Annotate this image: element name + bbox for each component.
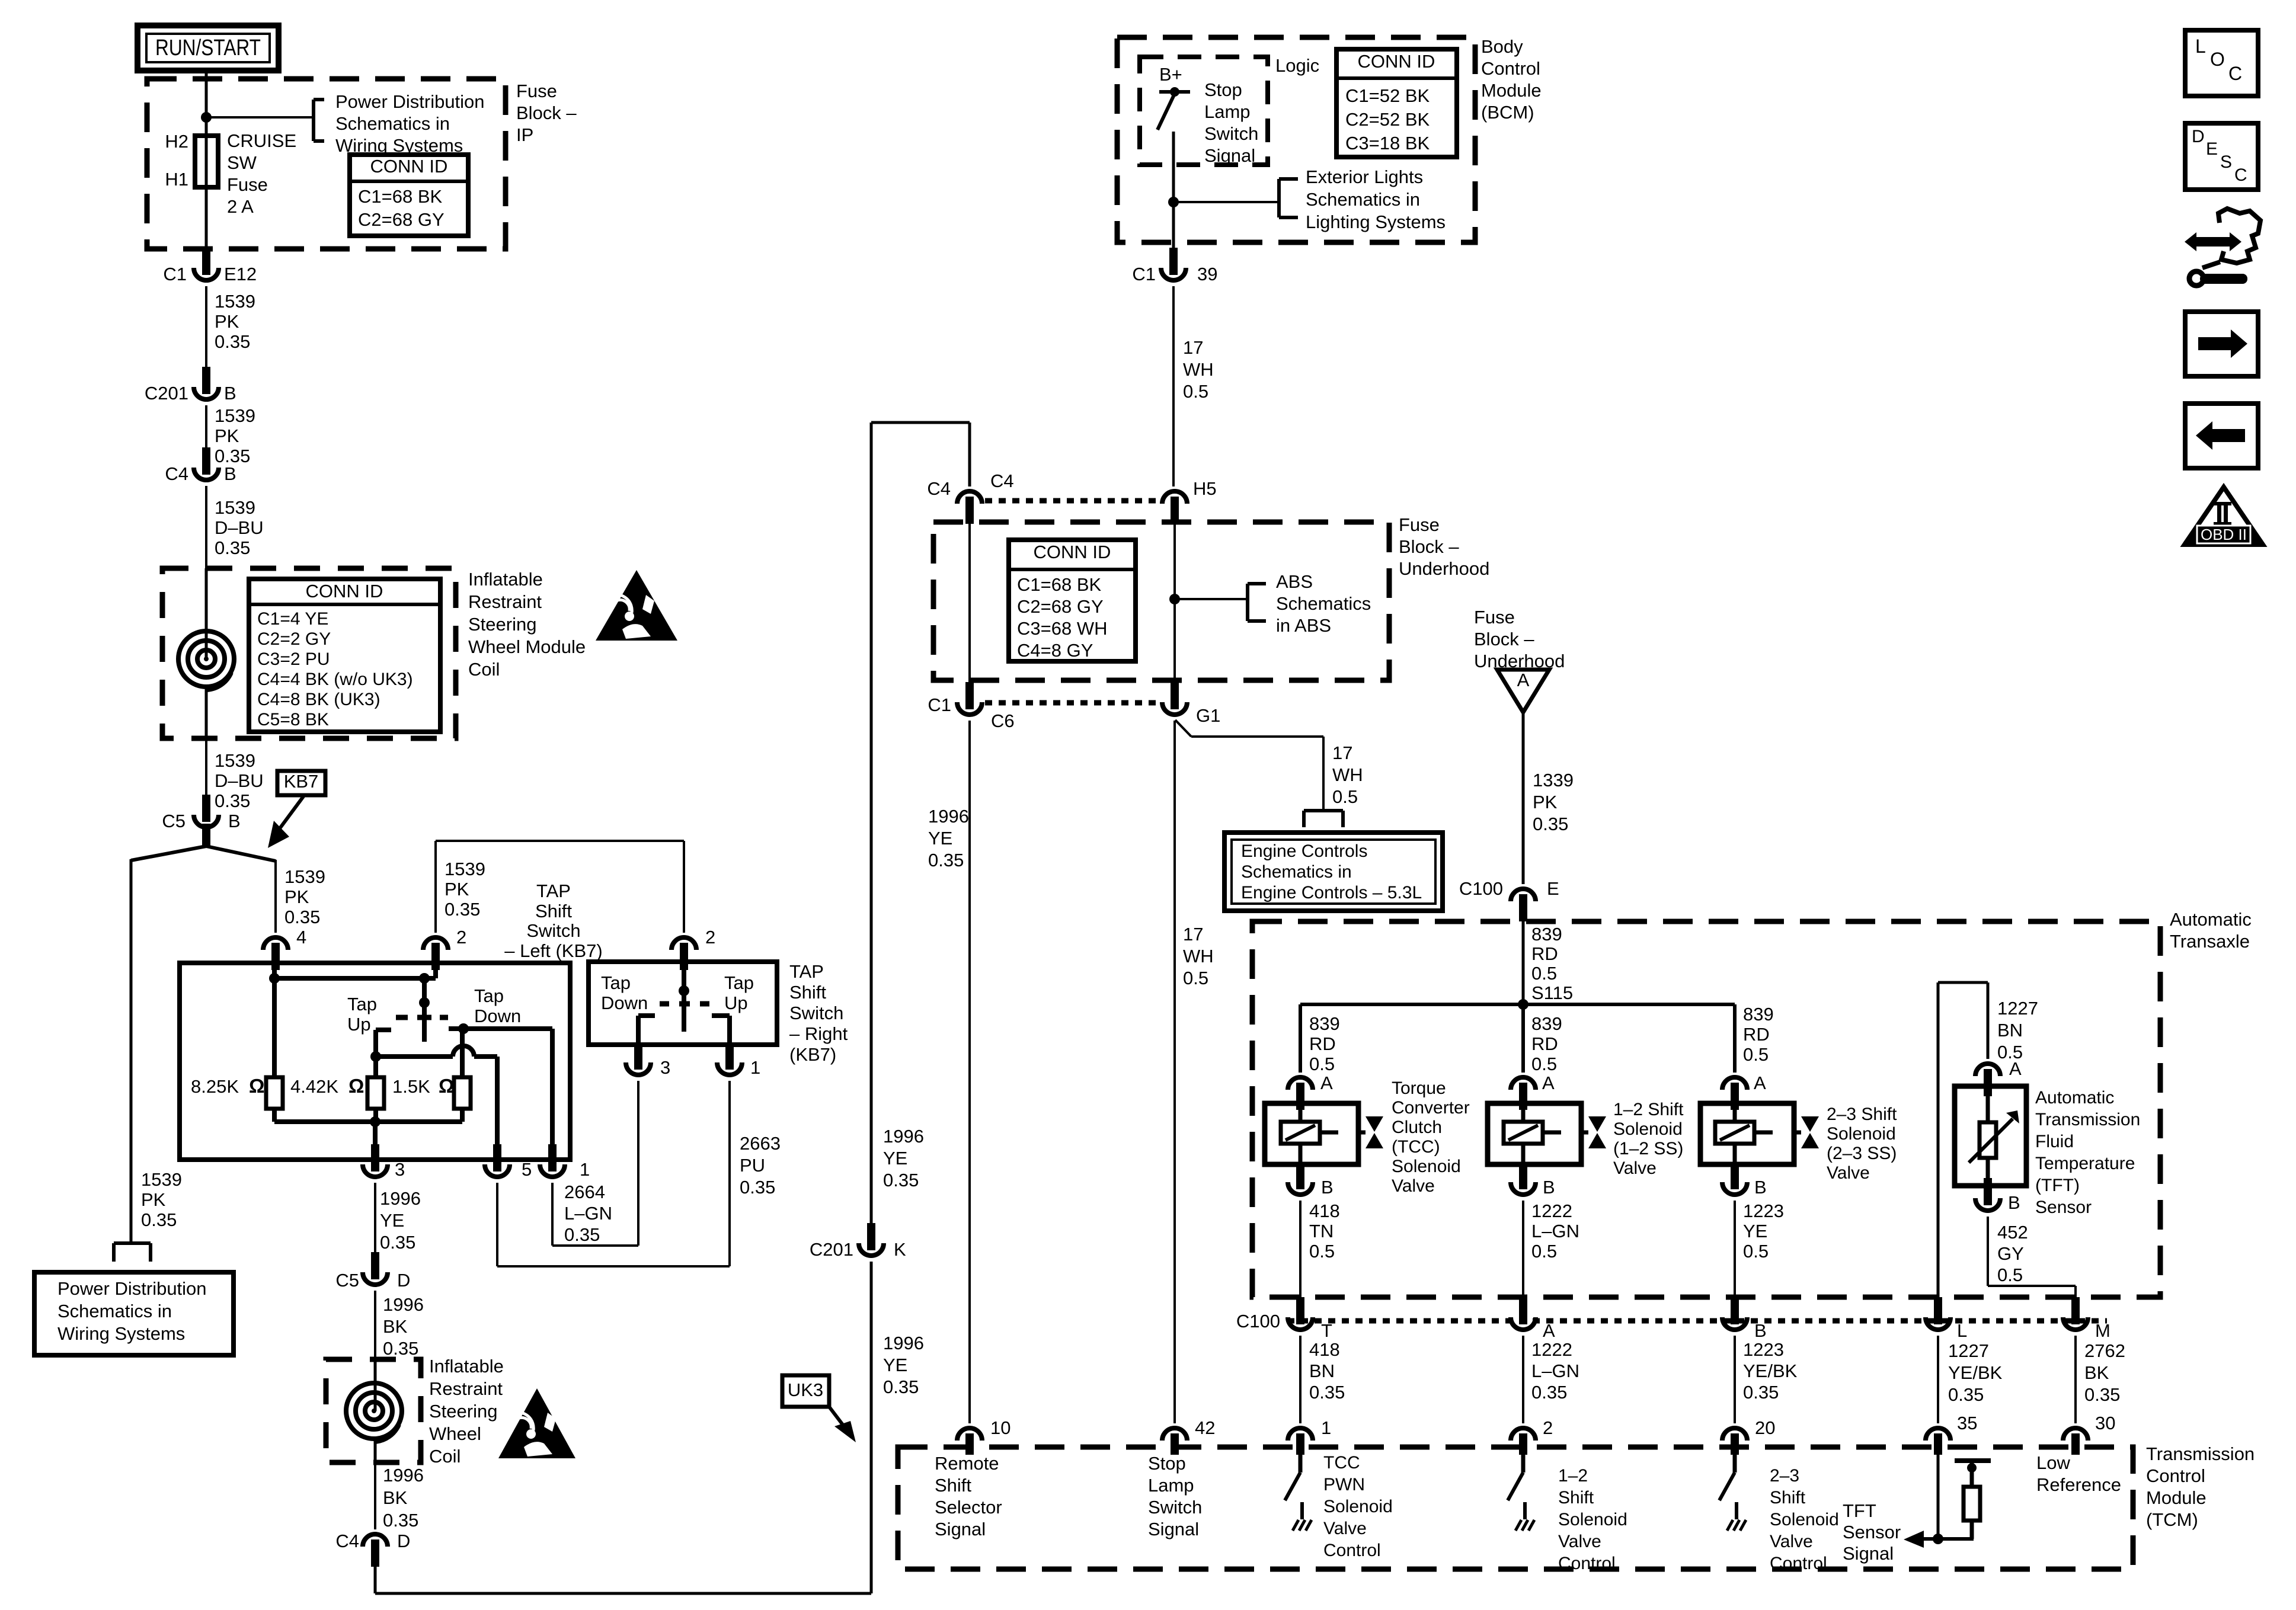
- svg-text:C4: C4: [165, 463, 188, 484]
- svg-text:C4=4 BK (w/o UK3): C4=4 BK (w/o UK3): [257, 670, 413, 689]
- svg-text:C: C: [2228, 63, 2242, 84]
- svg-text:YE: YE: [883, 1148, 907, 1169]
- connector row dotted line (top): [985, 498, 1158, 504]
- label TAP Shift Switch - Right (KB7): [789, 961, 848, 1065]
- svg-text:WH: WH: [1183, 946, 1214, 966]
- svg-text:H2: H2: [165, 131, 188, 152]
- svg-text:D: D: [397, 1531, 410, 1551]
- svg-text:418: 418: [1309, 1339, 1340, 1360]
- svg-text:H1: H1: [165, 169, 188, 190]
- Fuse Block - Underhood dashed box: [933, 522, 1389, 680]
- svg-text:S: S: [2220, 152, 2232, 172]
- connector pin 2 (TAP right): [671, 841, 715, 970]
- svg-text:H5: H5: [1193, 478, 1217, 499]
- Tap Up contact (right): [712, 1016, 730, 1045]
- reference box Power Distribution Schematics in Wiring Systems: [34, 1272, 234, 1355]
- connector pin 5 (TAP left): [485, 1144, 532, 1180]
- connector pin 20 + 2-3 driver switch and ground: [1719, 1417, 1775, 1531]
- connector pin 35: [1926, 1413, 1977, 1455]
- svg-text:Inflatable: Inflatable: [468, 569, 543, 590]
- svg-text:2: 2: [1543, 1417, 1553, 1438]
- connector pin 10: [957, 1417, 1011, 1455]
- svg-text:1227: 1227: [1948, 1340, 1989, 1361]
- svg-text:1539: 1539: [445, 859, 485, 879]
- reference bracket Power Distribution (IP): [314, 100, 324, 141]
- wire C4/D to riser: [375, 1567, 871, 1593]
- icon LOC: [2185, 30, 2258, 96]
- pin H2: [165, 131, 188, 152]
- svg-text:PK: PK: [215, 311, 239, 332]
- svg-text:Restraint: Restraint: [429, 1378, 503, 1399]
- svg-text:B: B: [1754, 1320, 1767, 1341]
- svg-text:1: 1: [1321, 1417, 1331, 1438]
- svg-text:PWN: PWN: [1323, 1475, 1365, 1494]
- wire 2762 BK 0.35: [2076, 1336, 2125, 1423]
- wire 17 WH 0.5 branch to engine controls: [1175, 720, 1363, 811]
- svg-text:Sensor: Sensor: [2035, 1198, 2092, 1217]
- wire 1222 L-GN 0.5: [1523, 1201, 1579, 1298]
- svg-text:L: L: [1957, 1320, 1967, 1341]
- wire fuse to C1: [205, 187, 208, 251]
- svg-text:Shift: Shift: [1770, 1488, 1806, 1507]
- svg-text:2: 2: [456, 927, 466, 948]
- bottom bus to pin 3: [274, 1116, 462, 1160]
- svg-text:0.5: 0.5: [1183, 381, 1208, 402]
- wire 839 RD 0.5 (left branch): [1300, 1004, 1340, 1074]
- svg-text:CONN ID: CONN ID: [1034, 542, 1111, 562]
- connector pin 2 (TAP left): [423, 927, 466, 970]
- svg-text:Wheel: Wheel: [429, 1423, 481, 1444]
- splice S115 bus: [1300, 999, 1735, 1010]
- svg-text:BN: BN: [1997, 1020, 2023, 1041]
- svg-text:1996: 1996: [383, 1294, 424, 1315]
- airbag warning triangle 2: [498, 1388, 575, 1458]
- svg-text:Engine Controls – 5.3L: Engine Controls – 5.3L: [1241, 883, 1422, 902]
- svg-text:TAP: TAP: [536, 881, 571, 901]
- label Body Control Module (BCM): [1481, 36, 1542, 123]
- TFT sensor box: [1955, 1086, 2026, 1186]
- svg-text:BK: BK: [2084, 1362, 2109, 1383]
- wire 1223 YE/BK 0.35: [1735, 1336, 1798, 1423]
- label Tap Down (left): [474, 985, 521, 1026]
- svg-text:Module: Module: [1481, 80, 1542, 101]
- svg-text:Steering: Steering: [468, 614, 536, 635]
- power node RUN/START: [137, 25, 279, 71]
- Fuse Block - IP dashed box: [147, 79, 506, 249]
- Tap Down contact to pin 1: [449, 1023, 552, 1160]
- svg-text:Wiring Systems: Wiring Systems: [57, 1323, 185, 1344]
- wire 1539 D-BU 0.35 (a): [206, 486, 264, 568]
- wire 418 TN 0.5: [1300, 1201, 1340, 1298]
- svg-text:35: 35: [1957, 1413, 1977, 1433]
- connector C1 / E12: [163, 248, 257, 284]
- svg-text:(BCM): (BCM): [1481, 102, 1534, 123]
- svg-text:CRUISE: CRUISE: [227, 130, 296, 151]
- svg-text:Body: Body: [1481, 36, 1523, 57]
- svg-text:Block –: Block –: [516, 103, 577, 123]
- svg-text:0.35: 0.35: [1743, 1382, 1779, 1403]
- svg-text:Control: Control: [2146, 1465, 2205, 1486]
- svg-text:Valve: Valve: [1770, 1532, 1813, 1551]
- svg-text:B+: B+: [1159, 64, 1182, 85]
- svg-text:0.35: 0.35: [1533, 814, 1568, 834]
- svg-text:Wheel Module: Wheel Module: [468, 636, 586, 657]
- Tap Up contact to resistor 4.42K: [370, 1030, 391, 1077]
- svg-text:Block –: Block –: [1399, 536, 1459, 557]
- icon back arrow: [2185, 404, 2258, 468]
- wire 1996 BK 0.35 (a): [375, 1291, 424, 1359]
- svg-text:D: D: [397, 1270, 410, 1291]
- svg-text:0.35: 0.35: [740, 1177, 775, 1198]
- svg-text:Logic: Logic: [1275, 55, 1319, 76]
- svg-text:WH: WH: [1332, 764, 1363, 785]
- svg-text:Solenoid: Solenoid: [1613, 1119, 1683, 1139]
- svg-text:S115: S115: [1531, 982, 1573, 1003]
- svg-text:0.35: 0.35: [1531, 1382, 1567, 1403]
- connector pin 30: [2063, 1413, 2115, 1455]
- svg-text:C201: C201: [810, 1239, 853, 1260]
- svg-text:RUN/START: RUN/START: [155, 36, 261, 60]
- svg-text:YE: YE: [380, 1210, 404, 1231]
- svg-text:GY: GY: [1997, 1243, 2024, 1264]
- svg-text:1223: 1223: [1743, 1339, 1784, 1360]
- svg-text:1223: 1223: [1743, 1201, 1784, 1221]
- svg-text:C4: C4: [990, 470, 1014, 491]
- label C100 (row): [1236, 1311, 1280, 1331]
- svg-text:Sensor: Sensor: [1843, 1522, 1901, 1542]
- connector pin 1 (TAP left): [540, 1144, 590, 1180]
- svg-text:Schematics in: Schematics in: [335, 113, 450, 134]
- reference bracket (power distribution bottom): [114, 1243, 151, 1262]
- svg-text:1539: 1539: [215, 405, 255, 426]
- svg-text:Module: Module: [2146, 1487, 2207, 1508]
- svg-text:(TCM): (TCM): [2146, 1509, 2198, 1530]
- svg-text:C1: C1: [1132, 264, 1156, 284]
- wire 1227 YE/BK 0.35: [1938, 1336, 2003, 1423]
- svg-text:A: A: [1517, 670, 1530, 690]
- svg-text:TN: TN: [1309, 1221, 1334, 1241]
- svg-text:1: 1: [580, 1159, 590, 1180]
- internal bus pin4-pin2: [269, 963, 436, 984]
- svg-text:T: T: [1321, 1320, 1332, 1341]
- svg-text:Fluid: Fluid: [2035, 1132, 2074, 1151]
- svg-text:2: 2: [705, 927, 715, 948]
- svg-text:1.5K: 1.5K: [392, 1076, 430, 1097]
- svg-text:in ABS: in ABS: [1276, 615, 1331, 636]
- label Remote Shift Selector Signal: [935, 1453, 1002, 1539]
- switch pole (right): [660, 962, 709, 1032]
- svg-text:1539: 1539: [215, 750, 255, 771]
- svg-text:WH: WH: [1183, 359, 1214, 380]
- wire 1539 PK right branch to pin 4: [276, 860, 325, 933]
- TAP Shift Switch - Right box: [589, 962, 777, 1045]
- svg-text:CONN ID: CONN ID: [370, 156, 448, 177]
- wire stop lamp signal in BCM: [1168, 132, 1179, 248]
- svg-text:Lighting Systems: Lighting Systems: [1306, 212, 1446, 232]
- svg-text:0.35: 0.35: [380, 1232, 415, 1253]
- svg-text:L–GN: L–GN: [1531, 1361, 1579, 1381]
- label ABS Schematics in ABS: [1276, 571, 1371, 636]
- svg-text:0.35: 0.35: [883, 1170, 919, 1190]
- label Automatic Transaxle: [2170, 909, 2252, 952]
- Logic dashed box: [1140, 57, 1268, 165]
- connector C5 / B: [162, 795, 240, 831]
- svg-text:D–BU: D–BU: [215, 770, 264, 791]
- label CRUISE SW Fuse 2A: [227, 130, 296, 217]
- svg-text:0.35: 0.35: [928, 850, 964, 870]
- resistor 8.25K: [191, 978, 283, 1122]
- svg-text:Valve: Valve: [1613, 1158, 1657, 1178]
- svg-text:2–3: 2–3: [1770, 1466, 1799, 1486]
- wire 1539 PK 0.35 (b): [206, 405, 255, 466]
- svg-text:8.25K: 8.25K: [191, 1076, 239, 1097]
- pin H1: [165, 169, 188, 190]
- svg-text:0.35: 0.35: [2084, 1384, 2120, 1405]
- reference bracket ABS: [1248, 584, 1266, 621]
- svg-text:Stop: Stop: [1148, 1453, 1186, 1474]
- svg-text:2 A: 2 A: [227, 196, 254, 217]
- wire 418 BN 0.35: [1300, 1336, 1345, 1423]
- svg-text:L–GN: L–GN: [1531, 1221, 1579, 1241]
- svg-text:TCC: TCC: [1323, 1453, 1360, 1473]
- label Automatic Transmission Fluid Temperature (TFT) Sensor: [2035, 1088, 2140, 1217]
- svg-text:452: 452: [1997, 1222, 2028, 1243]
- label TFT Sensor Signal: [1843, 1500, 1901, 1564]
- svg-text:839: 839: [1531, 924, 1562, 945]
- svg-text:YE: YE: [883, 1355, 907, 1375]
- wire 1996 BK 0.35 (b): [375, 1462, 424, 1531]
- connector C1 / C6 (fuse block bottom): [928, 682, 1014, 731]
- svg-text:A: A: [1320, 1073, 1333, 1093]
- connector pin 3 (TAP right): [626, 1042, 670, 1078]
- svg-text:418: 418: [1309, 1201, 1340, 1221]
- svg-text:Solenoid: Solenoid: [1770, 1510, 1839, 1529]
- reference box Engine Controls Schematics in Engine Controls - 5.3L: [1224, 833, 1443, 911]
- svg-text:Switch: Switch: [789, 1003, 843, 1023]
- label Power Distribution Schematics in Wiring Systems (IP): [335, 91, 485, 156]
- label Tap Up (left): [347, 994, 377, 1035]
- svg-text:RD: RD: [1309, 1033, 1336, 1054]
- svg-text:A: A: [1542, 1073, 1555, 1093]
- svg-text:C5: C5: [162, 811, 186, 831]
- svg-text:0.35: 0.35: [383, 1338, 418, 1359]
- svg-text:Fuse: Fuse: [516, 81, 557, 101]
- svg-text:C100: C100: [1236, 1311, 1280, 1331]
- svg-text:Control: Control: [1770, 1554, 1827, 1573]
- connector C201 / K: [810, 1223, 906, 1260]
- svg-text:17: 17: [1183, 337, 1203, 358]
- connector pin 1 (TAP right): [717, 1042, 760, 1078]
- label Exterior Lights Schematics in Lighting Systems: [1306, 167, 1446, 232]
- label Low Reference: [2036, 1452, 2121, 1495]
- connector C4 / B: [165, 447, 236, 484]
- svg-text:Low: Low: [2036, 1452, 2070, 1473]
- svg-text:10: 10: [990, 1417, 1011, 1438]
- svg-text:Shift: Shift: [935, 1475, 971, 1496]
- wire 17 WH 0.5 (a): [1173, 286, 1214, 486]
- svg-text:D–BU: D–BU: [215, 517, 264, 538]
- svg-text:A: A: [2009, 1058, 2022, 1079]
- icon OBD II triangle: [2184, 487, 2263, 546]
- svg-text:Schematics in: Schematics in: [1241, 862, 1352, 882]
- wire 1227 BN 0.5: [1997, 998, 2038, 1062]
- svg-text:C4: C4: [927, 478, 951, 499]
- svg-text:Schematics: Schematics: [1276, 593, 1371, 614]
- svg-text:0.35: 0.35: [883, 1377, 919, 1397]
- connector H5: [1162, 478, 1217, 524]
- CONN ID table (BCM): [1336, 49, 1457, 157]
- label Tap Up (right): [724, 972, 754, 1013]
- svg-text:1539: 1539: [215, 497, 255, 518]
- svg-text:0.5: 0.5: [1531, 1241, 1557, 1262]
- wire inside fuse block (left): [968, 524, 971, 683]
- svg-text:Exterior Lights: Exterior Lights: [1306, 167, 1423, 187]
- svg-text:Shift: Shift: [535, 901, 572, 921]
- svg-text:Valve: Valve: [1558, 1532, 1601, 1551]
- svg-text:– Right: – Right: [789, 1023, 848, 1044]
- resistor 4.42K: [290, 1075, 384, 1122]
- svg-text:Solenoid: Solenoid: [1827, 1124, 1896, 1144]
- airbag warning triangle 1: [596, 570, 677, 641]
- wire 1223 YE 0.5: [1735, 1201, 1784, 1298]
- svg-text:Tap: Tap: [474, 985, 504, 1006]
- svg-text:Stop: Stop: [1204, 79, 1242, 100]
- node B+: [1159, 64, 1182, 85]
- svg-text:Converter: Converter: [1392, 1098, 1470, 1118]
- svg-text:Schematics in: Schematics in: [57, 1301, 172, 1321]
- svg-text:839: 839: [1743, 1004, 1774, 1025]
- svg-text:Lamp: Lamp: [1204, 101, 1251, 122]
- label Stop Lamp Switch Signal (BCM): [1204, 79, 1258, 166]
- svg-text:Ω: Ω: [439, 1075, 454, 1097]
- svg-text:(2–3 SS): (2–3 SS): [1827, 1144, 1897, 1163]
- svg-text:Signal: Signal: [1204, 145, 1255, 166]
- svg-text:0.5: 0.5: [1743, 1044, 1769, 1065]
- svg-text:C3=18 BK: C3=18 BK: [1345, 133, 1430, 153]
- label Transmission Control Module (TCM): [2146, 1443, 2255, 1530]
- svg-text:1996: 1996: [383, 1465, 424, 1486]
- svg-text:0.35: 0.35: [445, 899, 480, 920]
- power triangle A: [1497, 670, 1549, 712]
- Inflatable Restraint Steering Wheel Coil dashed box 2: [326, 1359, 421, 1462]
- svg-text:TAP: TAP: [789, 961, 824, 982]
- svg-text:1339: 1339: [1533, 770, 1574, 790]
- svg-text:PK: PK: [284, 886, 309, 907]
- svg-text:BK: BK: [383, 1487, 408, 1508]
- svg-text:C4=8 GY: C4=8 GY: [1017, 640, 1093, 661]
- svg-text:– Left (KB7): – Left (KB7): [504, 940, 602, 961]
- svg-text:Ω: Ω: [348, 1075, 364, 1097]
- connector A (TFT): [1975, 1058, 2022, 1096]
- svg-text:Transmission: Transmission: [2035, 1110, 2140, 1129]
- svg-text:BN: BN: [1309, 1361, 1335, 1381]
- svg-text:C201: C201: [145, 383, 188, 404]
- svg-text:C5=8 BK: C5=8 BK: [257, 710, 329, 729]
- svg-text:C2=68 GY: C2=68 GY: [1017, 596, 1104, 617]
- option tag KB7 with arrow: [268, 771, 325, 848]
- svg-text:Valve: Valve: [1392, 1176, 1435, 1196]
- svg-text:C5: C5: [335, 1270, 359, 1291]
- resistor 1.5K: [392, 1029, 471, 1122]
- svg-text:Steering: Steering: [429, 1401, 497, 1422]
- connector B (TCC): [1288, 1162, 1334, 1198]
- label Fuse Block - Underhood (A): [1474, 607, 1565, 671]
- svg-text:TFT: TFT: [1843, 1500, 1876, 1521]
- svg-text:0.5: 0.5: [1309, 1054, 1335, 1074]
- solenoid 1-2 shift valve: [1488, 1103, 1606, 1164]
- svg-text:Switch: Switch: [1204, 123, 1258, 144]
- wire 1339 PK 0.35: [1523, 712, 1574, 884]
- svg-text:30: 30: [2095, 1413, 2115, 1433]
- svg-text:C1=52 BK: C1=52 BK: [1345, 85, 1430, 106]
- svg-text:Ω: Ω: [249, 1075, 264, 1097]
- svg-text:17: 17: [1183, 924, 1203, 945]
- svg-text:20: 20: [1755, 1417, 1775, 1438]
- svg-text:Control: Control: [1558, 1554, 1616, 1573]
- svg-text:Coil: Coil: [429, 1446, 461, 1467]
- svg-text:Transaxle: Transaxle: [2170, 931, 2250, 952]
- svg-text:PU: PU: [740, 1155, 765, 1176]
- label Logic: [1275, 55, 1319, 76]
- switch pole Tap Up/Down (left): [396, 978, 448, 1042]
- label TCC PWN Solenoid Valve Control: [1323, 1453, 1393, 1560]
- connector C100 / L: [1926, 1297, 1967, 1341]
- svg-text:Clutch: Clutch: [1392, 1118, 1442, 1137]
- reference bracket engine controls: [1304, 811, 1343, 827]
- svg-text:1996: 1996: [883, 1333, 924, 1353]
- wire to power distribution reference: [206, 116, 314, 119]
- connector G1: [1162, 682, 1220, 726]
- svg-text:C: C: [2234, 165, 2247, 185]
- label Fuse Block - Underhood: [1399, 514, 1489, 579]
- wire TFT jog (top): [1938, 982, 1988, 1299]
- svg-text:C4=8 BK (UK3): C4=8 BK (UK3): [257, 690, 380, 709]
- svg-text:Restraint: Restraint: [468, 591, 542, 612]
- svg-text:D: D: [2192, 127, 2205, 146]
- svg-text:Temperature: Temperature: [2035, 1154, 2135, 1173]
- connector C100 / A: [1511, 1297, 1555, 1341]
- connector A (TCC solenoid): [1288, 1073, 1333, 1110]
- svg-text:E12: E12: [224, 264, 257, 284]
- connector C100 / E: [1459, 878, 1559, 921]
- svg-text:L: L: [2195, 36, 2206, 57]
- svg-text:OBD II: OBD II: [2201, 526, 2247, 543]
- node junction at fuse top: [201, 112, 212, 123]
- svg-text:1–2 Shift: 1–2 Shift: [1613, 1100, 1684, 1119]
- label TAP Shift Switch - Left (KB7): [504, 881, 602, 961]
- svg-text:Solenoid: Solenoid: [1323, 1497, 1393, 1516]
- svg-text:Switch: Switch: [526, 920, 580, 941]
- svg-text:Tap: Tap: [724, 972, 754, 993]
- svg-text:Valve: Valve: [1827, 1163, 1870, 1183]
- wire 839 RD 0.5 (right branch): [1735, 1004, 1774, 1073]
- svg-text:1996: 1996: [928, 806, 969, 827]
- svg-text:0.35: 0.35: [284, 907, 320, 927]
- C100 connector row dotted line: [1287, 1318, 2107, 1324]
- wire 839 RD 0.5 to splice S115: [1523, 921, 1573, 1004]
- svg-text:Power Distribution: Power Distribution: [335, 91, 485, 112]
- connector pin 4 (TAP left): [263, 927, 306, 970]
- connector C4 / D: [335, 1531, 410, 1567]
- svg-text:Signal: Signal: [1843, 1543, 1894, 1564]
- svg-text:1222: 1222: [1531, 1339, 1572, 1360]
- wire 1539 PK pin2 loop: [436, 841, 684, 933]
- svg-text:Automatic: Automatic: [2170, 909, 2252, 930]
- svg-text:SW: SW: [227, 152, 257, 173]
- reference bracket Exterior Lights: [1173, 179, 1298, 217]
- svg-text:PK: PK: [1533, 792, 1558, 812]
- svg-text:0.35: 0.35: [383, 1510, 418, 1531]
